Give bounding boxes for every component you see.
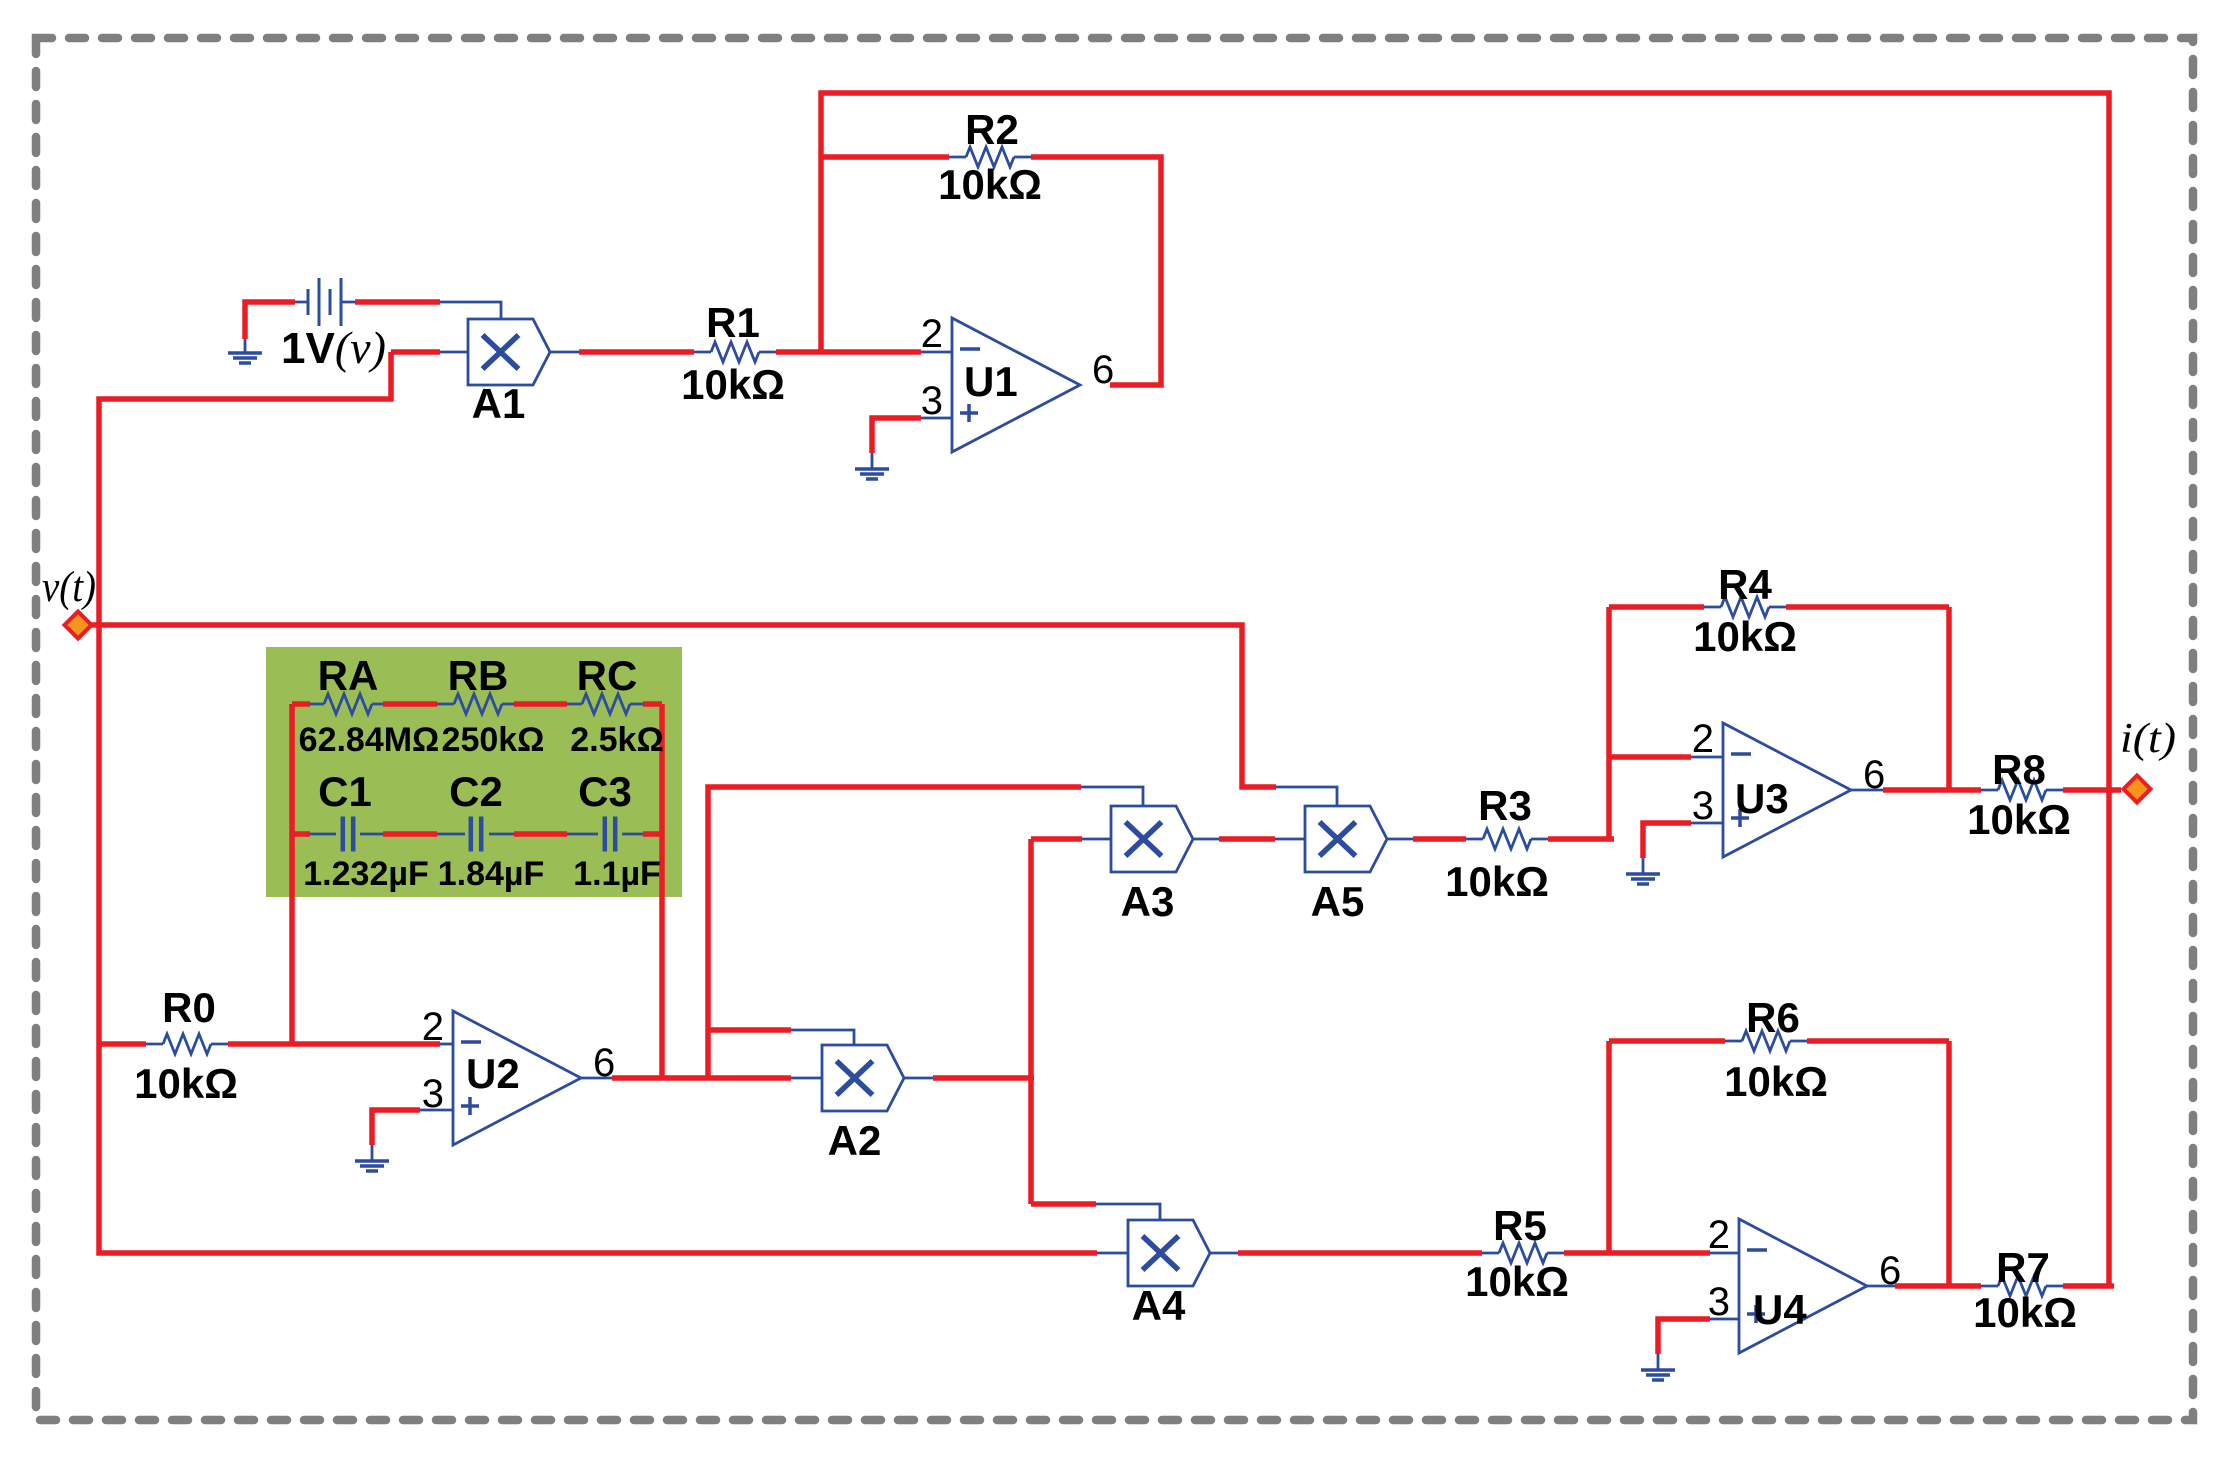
wire: A3 input 1 lead	[1081, 787, 1143, 806]
svg-text:R6: R6	[1746, 994, 1800, 1041]
wire: R5 node up to R6 row	[1606, 1041, 1612, 1253]
wire: A2 output lead	[904, 1077, 933, 1080]
wire: R3 right to U3 node	[1548, 836, 1614, 842]
wire: A2 output junction vertical	[1028, 839, 1034, 1204]
svg-text:2: 2	[422, 1005, 444, 1049]
svg-text:2: 2	[921, 312, 943, 356]
ground (battery)	[228, 353, 262, 363]
wire: A3 output lead	[1193, 838, 1219, 841]
svg-text:U2: U2	[466, 1050, 520, 1097]
wire: R4 right lead	[1786, 604, 1949, 610]
wire: U1 pin 3 to ground	[872, 418, 921, 453]
svg-text:R1: R1	[706, 299, 760, 346]
svg-text:10kΩ: 10kΩ	[1967, 796, 2071, 843]
wire: R8 right to i(t) node	[2063, 787, 2121, 793]
battery source 1V(v)	[308, 278, 341, 326]
svg-text:A4: A4	[1132, 1282, 1186, 1329]
svg-text:C3: C3	[578, 768, 632, 815]
svg-text:R2: R2	[965, 106, 1019, 153]
ground (U4 pin 3)	[1641, 1370, 1675, 1380]
svg-text:R0: R0	[162, 984, 216, 1031]
svg-text:v(t): v(t)	[42, 564, 96, 611]
parameter box (green)	[266, 647, 682, 897]
svg-text:RC: RC	[577, 652, 638, 699]
wire: R1 right to U1 pin 2	[776, 349, 921, 355]
node v(t) diamond	[65, 612, 92, 639]
op-amp U4	[1739, 1219, 1867, 1353]
wire: U3 pin 3 lead	[1691, 822, 1723, 825]
wire: RA RB RC leads	[310, 703, 643, 706]
wire: U3 output lead	[1851, 789, 1883, 792]
wire: U3 pin 2 lead	[1691, 756, 1723, 759]
svg-text:A2: A2	[828, 1117, 882, 1164]
svg-text:3: 3	[422, 1072, 444, 1116]
wire: battery to A1 input 1 (pin lead)	[440, 302, 501, 319]
wire: R6 leads	[1725, 1040, 1807, 1043]
wire: A4 input 2 lead	[1097, 1252, 1128, 1255]
svg-text:1V(v): 1V(v)	[281, 322, 386, 373]
resistor R2	[966, 147, 1014, 167]
wire: U1 output to R2 right end	[1031, 157, 1161, 385]
wire: U3 pin 3 to ground	[1643, 823, 1691, 858]
multiplier A5	[1305, 806, 1387, 872]
wire: U2 output lead	[581, 1077, 612, 1080]
op-amp U2	[453, 1011, 581, 1145]
svg-text:10kΩ: 10kΩ	[938, 161, 1042, 208]
wire: R1 leads	[694, 351, 776, 354]
svg-text:R8: R8	[1992, 746, 2046, 793]
svg-text:1.232µF: 1.232µF	[303, 855, 428, 893]
svg-text:2: 2	[1708, 1213, 1730, 1257]
svg-text:250kΩ: 250kΩ	[442, 721, 545, 759]
svg-text:62.84MΩ: 62.84MΩ	[299, 721, 440, 759]
wire: R5 leads	[1482, 1252, 1564, 1255]
wire: U3 ground lead	[1642, 858, 1645, 874]
ground (U1 pin 3)	[855, 469, 889, 479]
svg-text:10kΩ: 10kΩ	[1973, 1289, 2077, 1336]
wire: U2 pin 3 lead	[420, 1109, 453, 1112]
wire: R0 right to U2 pin 2	[228, 1041, 440, 1047]
svg-text:RB: RB	[448, 652, 509, 699]
wire: U1 pin 3 lead	[921, 417, 952, 420]
wire: R4 leads	[1704, 606, 1786, 609]
wire: U4 output to R7 left	[1895, 1283, 1981, 1289]
svg-text:RA: RA	[318, 652, 379, 699]
svg-text:C1: C1	[318, 768, 372, 815]
wire: R6 left lead	[1609, 1038, 1725, 1044]
wire: U3 output to R8 left	[1883, 787, 1981, 793]
wire: A1 output pin lead	[550, 351, 579, 354]
svg-text:10kΩ: 10kΩ	[134, 1060, 238, 1107]
resistor R4	[1721, 597, 1769, 617]
resistor R8	[1998, 780, 2046, 800]
wire: A1 input 2 pin lead	[440, 351, 468, 354]
capacitor C2	[471, 817, 481, 852]
svg-text:R3: R3	[1478, 782, 1532, 829]
wire: segments along RA-RB-RC row	[292, 701, 662, 707]
svg-text:U3: U3	[1735, 775, 1789, 822]
wire: A4 output to R5 left	[1238, 1250, 1482, 1256]
wire: junction to A3 input 2	[1031, 836, 1082, 842]
wire: R2 left lead from node	[821, 154, 949, 160]
wire: junction to A4 input 1	[1031, 1201, 1096, 1207]
svg-text:A1: A1	[472, 380, 526, 427]
wire: A2 input 1 lead	[791, 1030, 854, 1045]
wire: left vertical net v(t) down to A4 input 2 rail	[99, 352, 1097, 1253]
wire: U4 pin 2 lead	[1710, 1252, 1739, 1255]
resistor RB	[454, 694, 502, 714]
capacitor C3	[605, 817, 615, 852]
op-amp U1	[952, 318, 1080, 452]
multiplier A4	[1128, 1220, 1210, 1286]
wire: R4 left lead	[1609, 604, 1704, 610]
svg-text:R5: R5	[1493, 1202, 1547, 1249]
svg-text:6: 6	[1879, 1249, 1901, 1293]
resistor R3	[1483, 829, 1531, 849]
wire: R3 leads	[1466, 838, 1548, 841]
svg-text:6: 6	[1092, 348, 1114, 392]
multiplier A1	[468, 319, 550, 385]
wire: A4 output lead	[1210, 1252, 1238, 1255]
svg-text:6: 6	[1863, 753, 1885, 797]
wire: U2 pin 2 lead	[440, 1043, 453, 1046]
wire: v node to A1 input 2 stub	[391, 349, 440, 355]
wire: battery negative to ground	[245, 302, 295, 339]
svg-text:R7: R7	[1996, 1244, 2050, 1291]
wire: A5 output to R3 left	[1413, 836, 1466, 842]
resistor R0	[163, 1034, 211, 1054]
wire: C1 C2 C3 leads	[310, 833, 643, 836]
svg-text:U1: U1	[964, 358, 1018, 405]
resistor R1	[711, 342, 759, 362]
svg-text:10kΩ: 10kΩ	[1465, 1258, 1569, 1305]
wire: A3 input 2 lead	[1082, 838, 1111, 841]
wire: R3 node up to R4 row	[1606, 607, 1612, 839]
wire: U2 output node up and to A3 input 1	[708, 787, 1081, 1078]
resistor RA	[324, 694, 372, 714]
svg-text:A5: A5	[1311, 878, 1365, 925]
resistor RC	[582, 694, 630, 714]
resistor R7	[1998, 1276, 2046, 1296]
multiplier A2	[822, 1045, 904, 1111]
wire: R7 leads	[1981, 1285, 2063, 1288]
svg-text:2.5kΩ: 2.5kΩ	[570, 721, 663, 759]
wire: U2 pin 3 to ground	[372, 1110, 420, 1145]
wire: left rail to R0 left	[99, 1041, 146, 1047]
wire: A5 input 2 lead	[1275, 838, 1305, 841]
svg-text:1.84µF: 1.84µF	[438, 855, 545, 893]
wire: R8 leads	[1981, 789, 2063, 792]
wire: A2 input 2 lead	[791, 1077, 822, 1080]
wire: branch to A2 input 1	[708, 1027, 791, 1033]
wire: U1 pin 2 lead	[921, 351, 952, 354]
resistor R6	[1742, 1031, 1790, 1051]
wire: R7 right to right-side rail	[2063, 1283, 2114, 1289]
svg-text:A3: A3	[1121, 878, 1175, 925]
wire: U1 ground lead	[871, 453, 874, 469]
wire: R0 leads	[146, 1043, 228, 1046]
svg-text:10kΩ: 10kΩ	[1724, 1058, 1828, 1105]
wire: battery plate stubs	[295, 301, 355, 304]
wire: R4 right down to U3 output	[1946, 607, 1952, 790]
svg-text:C2: C2	[449, 768, 503, 815]
wire: A5 output lead	[1387, 838, 1413, 841]
capacitor C1	[343, 817, 353, 852]
wire: v(t) node rail to A5 input 1	[88, 625, 1276, 787]
wire: U4 ground lead	[1657, 1354, 1660, 1370]
wire: battery positive to A1 input 1	[355, 299, 440, 305]
svg-text:3: 3	[921, 379, 943, 423]
node i(t) diamond	[2124, 776, 2151, 803]
wire: A1 output to R1 left	[579, 349, 694, 355]
svg-text:3: 3	[1692, 784, 1714, 828]
multiplier A3	[1111, 806, 1193, 872]
op-amp U3	[1723, 723, 1851, 857]
wire: U4 pin 3 to ground	[1658, 1319, 1710, 1354]
svg-text:U4: U4	[1753, 1286, 1807, 1333]
ground (U3 pin 3)	[1626, 874, 1660, 884]
wire: battery ground lead	[244, 339, 247, 353]
svg-text:10kΩ: 10kΩ	[1445, 858, 1549, 905]
wire: U4 pin 3 lead	[1710, 1318, 1739, 1321]
wire: A5 input 1 lead	[1276, 787, 1337, 806]
resistor R5	[1499, 1243, 1547, 1263]
svg-text:i(t): i(t)	[2120, 716, 2176, 762]
wire: U2 ground lead	[371, 1145, 374, 1161]
wire: R6 right down to U4 output	[1946, 1041, 1952, 1286]
svg-text:6: 6	[593, 1041, 615, 1085]
wire: RC/C3 right side down to U2 output node	[659, 704, 665, 1078]
wire: R5 right to U4 pin 2	[1564, 1250, 1710, 1256]
svg-text:1.1µF: 1.1µF	[573, 855, 661, 893]
svg-text:3: 3	[1708, 1280, 1730, 1324]
wire: U4 output lead	[1867, 1285, 1895, 1288]
wire: A3 output to A5 input 2	[1219, 836, 1275, 842]
wire: segments along C1-C2-C3 row	[292, 831, 662, 837]
wire: A2 output to junction	[933, 1075, 1034, 1081]
svg-text:R4: R4	[1718, 561, 1772, 608]
ground (U2 pin 3)	[355, 1161, 389, 1171]
wire: R6 right lead	[1807, 1038, 1949, 1044]
wire: RA/C1 left side down to U2 pin 2 node	[289, 704, 295, 1044]
svg-text:2: 2	[1692, 717, 1714, 761]
wire: node to U3 pin 2	[1609, 754, 1691, 760]
wire: U1 inverting node rail - top and right side to R7/R8 node	[821, 93, 2109, 1286]
svg-text:10kΩ: 10kΩ	[681, 361, 785, 408]
wire: A4 input 1 lead	[1096, 1204, 1160, 1220]
svg-text:10kΩ: 10kΩ	[1693, 613, 1797, 660]
wire: U2 output to A2 input 2	[612, 1075, 791, 1081]
wire: R2 leads	[949, 156, 1031, 159]
